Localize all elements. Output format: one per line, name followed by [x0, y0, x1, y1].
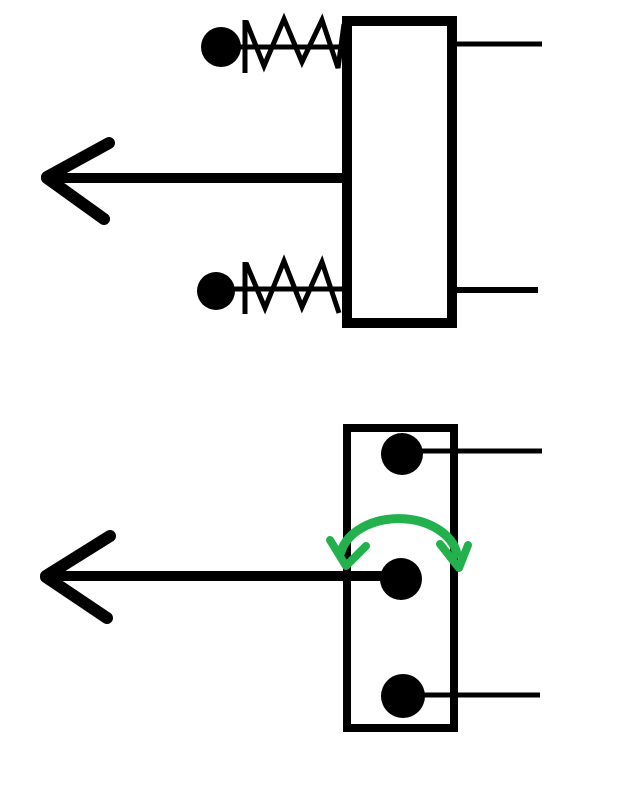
rotation arc right arrowhead: [440, 544, 468, 568]
upper anchor ball: [201, 27, 241, 67]
bottom pivot ball (figure 2): [381, 674, 425, 718]
force arrow head (figure 1): [47, 143, 109, 177]
rotation arc left arrowhead: [330, 540, 366, 566]
upper spring axis wire: [237, 45, 348, 50]
upper spring coil: [246, 19, 344, 68]
force arrow shaft (figure 2): [48, 571, 390, 581]
link bar (figure 2): [347, 428, 454, 728]
top pivot ball (figure 2): [381, 433, 423, 475]
force arrow head (figure 2): [46, 536, 110, 576]
top pivot link rod: [420, 449, 542, 454]
middle pivot ball (figure 2): [380, 558, 422, 600]
lower anchor ball: [197, 272, 235, 310]
lower spring end post: [243, 262, 248, 314]
upper spring end post: [243, 20, 248, 73]
mass block (figure 1): [347, 21, 452, 323]
rotation arc (green): [341, 519, 457, 554]
upper right link rod: [455, 42, 542, 47]
bottom pivot link rod: [422, 693, 540, 698]
force arrow shaft (figure 1): [48, 173, 345, 183]
lower right link rod: [455, 287, 538, 293]
lower spring axis wire: [232, 287, 348, 292]
lower spring coil: [246, 261, 339, 313]
